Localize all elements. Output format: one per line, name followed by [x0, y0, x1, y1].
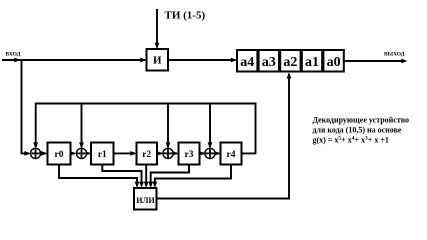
svg-text:r4: r4 — [227, 150, 236, 160]
svg-text:а3: а3 — [262, 55, 276, 70]
svg-text:И: И — [153, 55, 162, 67]
svg-text:r2: r2 — [142, 150, 151, 160]
svg-text:ВХОД: ВХОД — [5, 52, 20, 58]
svg-text:r3: r3 — [185, 150, 194, 160]
svg-text:ВЫХОД: ВЫХОД — [384, 52, 405, 58]
svg-text:а4: а4 — [240, 55, 254, 70]
svg-text:ТИ (1-5): ТИ (1-5) — [165, 9, 206, 21]
svg-text:а0: а0 — [327, 55, 341, 70]
svg-text:ИЛИ: ИЛИ — [136, 196, 155, 205]
svg-text:для кода (10,5) на основе: для кода (10,5) на основе — [313, 126, 402, 135]
svg-text:а1: а1 — [305, 55, 319, 70]
svg-text:r0: r0 — [55, 150, 64, 160]
svg-text:r1: r1 — [98, 150, 107, 160]
svg-text:а2: а2 — [283, 55, 297, 70]
svg-text:g(x) = x5+ x4+ x3+ x +1: g(x) = x5+ x4+ x3+ x +1 — [313, 136, 389, 145]
svg-text:Декодирующее устройство: Декодирующее устройство — [313, 116, 410, 125]
